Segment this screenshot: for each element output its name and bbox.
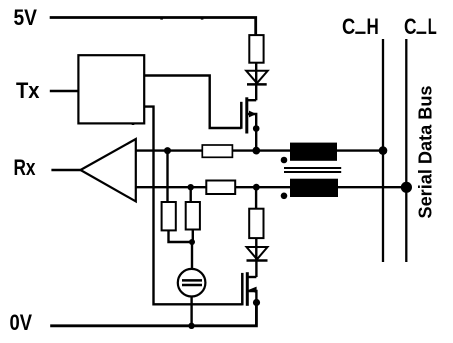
svg-text:5V: 5V bbox=[14, 5, 38, 30]
svg-text:C: C bbox=[342, 14, 355, 39]
svg-text:0V: 0V bbox=[10, 310, 33, 335]
svg-text:Rx: Rx bbox=[14, 155, 37, 180]
svg-text:L: L bbox=[428, 14, 437, 39]
svg-text:Tx: Tx bbox=[16, 78, 40, 103]
svg-text:C: C bbox=[404, 14, 417, 39]
svg-text:Serial Data Bus: Serial Data Bus bbox=[416, 86, 436, 219]
svg-text:H: H bbox=[367, 14, 379, 39]
